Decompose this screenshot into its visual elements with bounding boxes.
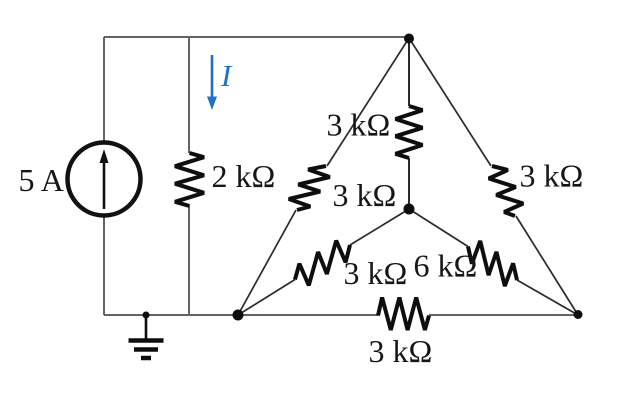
current arrow I (blue) (207, 55, 217, 110)
wire diag right lower to bottom-right node (516, 216, 578, 315)
node center (404, 204, 415, 215)
svg-text:3 kΩ: 3 kΩ (344, 255, 408, 291)
resistor 3k vertical zigzag (396, 106, 423, 158)
svg-text:3 kΩ: 3 kΩ (327, 107, 391, 143)
resistor 3k bottom zigzag (378, 298, 429, 331)
wire bottom right segment (429, 314, 578, 316)
wire left vertical lower (103, 216, 105, 315)
ground symbol (129, 315, 164, 358)
node bottom-left (233, 310, 244, 321)
svg-text:6 kΩ: 6 kΩ (414, 248, 478, 284)
wire top horizontal (104, 36, 409, 38)
wire center diag left lower (238, 280, 295, 316)
wire 2k branch upper (188, 37, 190, 153)
wire center diag right lower (517, 280, 578, 315)
wire top node diag right upper (409, 38, 491, 166)
wire center node diag right upper (409, 209, 468, 247)
resistor R 2k zigzag (175, 153, 204, 206)
resistor 3k diag top-right zigzag (489, 166, 523, 216)
wire 2k branch lower (188, 206, 190, 315)
svg-text:3 kΩ: 3 kΩ (333, 177, 397, 213)
resistor 3k diag center-left zigzag (295, 241, 350, 286)
svg-text:3 kΩ: 3 kΩ (369, 333, 433, 369)
wire top node to R3k vertical (408, 38, 410, 106)
wire bottom left segment (104, 314, 378, 316)
wire center node diag left upper (350, 209, 409, 245)
current source I1 circle (68, 143, 141, 216)
wire R3k vertical to center node (408, 158, 410, 209)
resistor 3k diag top-left zigzag (289, 166, 330, 210)
node top (404, 34, 414, 44)
svg-text:5 A: 5 A (19, 162, 64, 198)
svg-text:3 kΩ: 3 kΩ (520, 158, 584, 194)
node ground junction (143, 312, 150, 319)
wire diag left lower to bottom-left node (238, 210, 296, 315)
current source arrow (100, 149, 109, 209)
svg-text:I: I (220, 58, 233, 93)
resistor 6k diag center-right zigzag (468, 241, 517, 286)
wire left vertical upper (103, 37, 105, 142)
wire top node diag left upper (327, 38, 409, 166)
svg-text:2 kΩ: 2 kΩ (212, 158, 276, 194)
node bottom-right (574, 310, 583, 319)
